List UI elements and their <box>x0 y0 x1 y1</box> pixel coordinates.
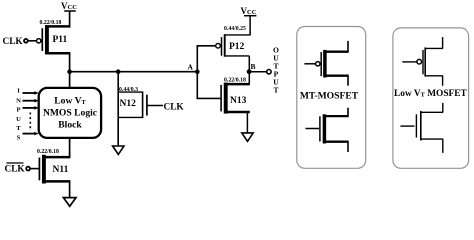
node junction dot 2 <box>116 69 121 74</box>
ground (N13) <box>242 133 253 141</box>
node B <box>247 62 256 74</box>
transistor P12 (low-VT PMOS) <box>216 34 250 57</box>
svg-text:NMOS Logic: NMOS Logic <box>43 107 98 118</box>
svg-text:0.22/0.18: 0.22/0.18 <box>37 149 59 155</box>
CLKbar input terminal (N11) <box>5 163 39 175</box>
INPUTS label <box>16 87 21 141</box>
svg-text:U: U <box>16 116 21 123</box>
svg-text:S: S <box>17 134 21 141</box>
svg-text:I: I <box>17 87 20 94</box>
input dotted ellipsis line <box>29 113 31 132</box>
wire dot1 to logic block <box>69 72 71 89</box>
svg-text:N13: N13 <box>230 96 247 106</box>
svg-text:P12: P12 <box>229 42 245 52</box>
wire logic block to N11 drain <box>69 138 71 157</box>
wire VCC2 to P12 source <box>249 16 251 36</box>
svg-text:0.44/0.25: 0.44/0.25 <box>224 26 246 32</box>
legend low-VT PMOS symbol <box>402 37 443 86</box>
Low VT NMOS Logic Block <box>39 88 101 138</box>
wire P12 drain to node B <box>248 56 250 72</box>
ground (N12) <box>113 146 124 155</box>
transistor N13 (MT NMOS) <box>221 83 250 114</box>
node A <box>188 63 200 74</box>
input arrow 1 <box>23 91 39 95</box>
svg-text:P: P <box>16 107 20 114</box>
wire N13 source down <box>246 112 248 133</box>
svg-text:CLK: CLK <box>5 165 26 175</box>
ground (N11) <box>63 198 76 207</box>
svg-text:T: T <box>16 125 21 132</box>
CLK input terminal (P11) <box>3 37 37 47</box>
wire N11 source down <box>69 181 71 197</box>
svg-text:N: N <box>16 97 21 104</box>
node junction dot 1 <box>67 69 72 74</box>
wire node A up to P12 gate <box>197 46 215 72</box>
wire node A down to N13 gate <box>197 72 220 99</box>
legend low-VT NMOS symbol <box>400 103 443 153</box>
svg-text:P11: P11 <box>53 35 68 45</box>
svg-text:0.22/0.18: 0.22/0.18 <box>40 20 62 26</box>
svg-text:Low VT MOSFET: Low VT MOSFET <box>394 89 468 99</box>
legend MT NMOS symbol <box>306 108 349 152</box>
wire VCC1 to P11 source <box>69 11 71 27</box>
wire P11 drain down <box>69 53 71 72</box>
transistor P11 (MT PMOS) <box>37 25 71 54</box>
legend box Low VT MOSFET <box>393 28 469 168</box>
svg-text:CLK: CLK <box>164 103 185 113</box>
wire N13 drain up to node B <box>248 72 250 84</box>
input arrow 2 <box>23 99 39 103</box>
svg-text:CLK: CLK <box>3 37 24 47</box>
CLK input (N12) <box>147 103 185 113</box>
VCC supply 2 (above P12) <box>241 6 257 16</box>
svg-text:N11: N11 <box>53 165 69 175</box>
svg-text:A: A <box>188 63 194 72</box>
input arrow 4 <box>23 132 39 136</box>
transistor N12 (low-VT NMOS, mirrored) <box>118 92 147 119</box>
svg-text:Block: Block <box>58 119 82 130</box>
wire dot2 to N12 <box>117 72 119 146</box>
VCC supply 1 (above P11) <box>61 1 77 11</box>
legend box MT-MOSFET <box>297 27 366 169</box>
transistor N11 (MT NMOS) <box>39 155 70 184</box>
svg-text:MT-MOSFET: MT-MOSFET <box>300 90 359 101</box>
output wire and terminal <box>249 70 271 74</box>
input arrow 3 <box>23 106 39 110</box>
svg-text:B: B <box>251 62 256 71</box>
svg-text:T: T <box>273 85 278 94</box>
legend MT PMOS symbol <box>304 41 348 86</box>
OUTPUT label <box>273 45 279 94</box>
wire main rail <box>70 71 198 73</box>
svg-text:N12: N12 <box>120 99 137 109</box>
